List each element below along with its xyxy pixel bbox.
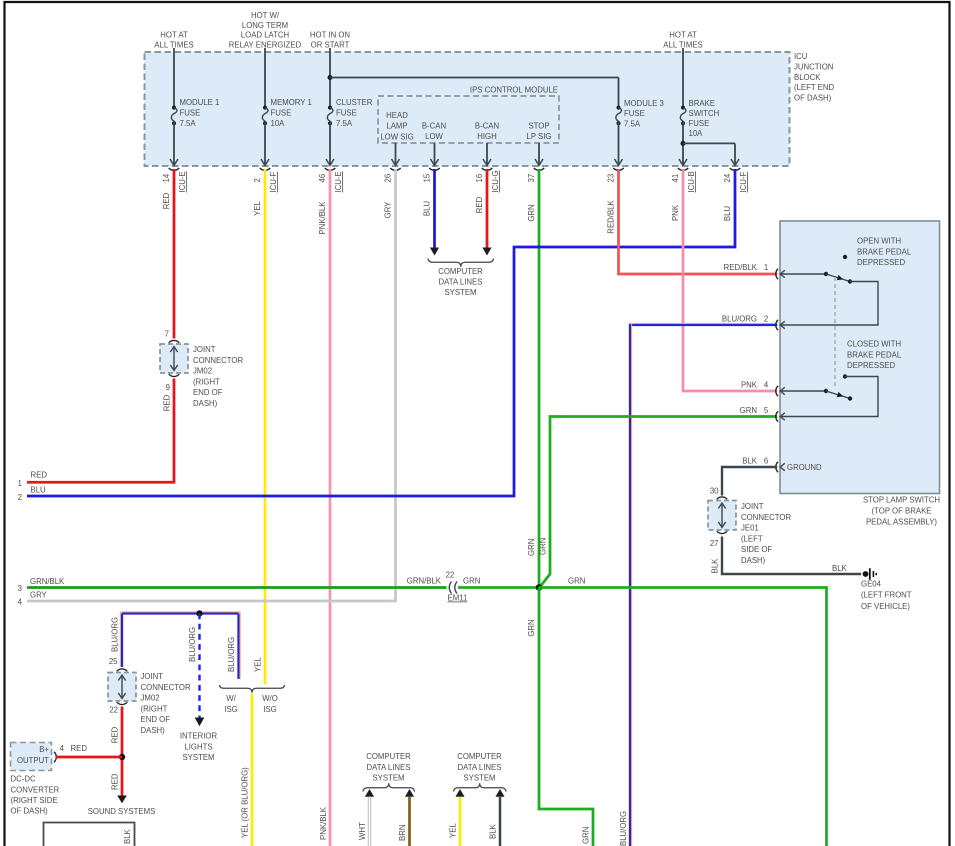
- wire BLU pin15 to computer data lines: [433, 169, 436, 248]
- svg-text:GRN: GRN: [568, 577, 585, 586]
- svg-text:CLUSTER: CLUSTER: [336, 98, 373, 107]
- svg-text:GRN: GRN: [527, 204, 536, 221]
- svg-text:BLU: BLU: [31, 485, 47, 494]
- svg-text:GRN/BLK: GRN/BLK: [407, 577, 442, 586]
- svg-text:DASH): DASH): [193, 399, 218, 408]
- feed wire to BRAKE SWITCH fuse: [682, 48, 684, 108]
- svg-text:37: 37: [527, 174, 536, 183]
- inline connector EM11: [449, 582, 451, 594]
- svg-text:INTERIOR: INTERIOR: [180, 732, 218, 741]
- svg-text:7.5A: 7.5A: [180, 119, 197, 128]
- svg-text:OUTPUT: OUTPUT: [17, 756, 49, 765]
- svg-text:LAMP: LAMP: [386, 122, 407, 131]
- wire IPS HEAD LAMP LOW SIG to pin 26: [395, 143, 397, 165]
- svg-text:LOW SIG: LOW SIG: [380, 132, 413, 141]
- pin 37 connector collar: [534, 168, 544, 170]
- svg-text:30: 30: [710, 487, 719, 496]
- junction node BLU/ORG: [196, 610, 202, 616]
- svg-text:YEL: YEL: [449, 823, 458, 838]
- wire GRY pin26 to row 4: [27, 169, 396, 601]
- svg-text:PNK: PNK: [741, 381, 758, 390]
- svg-text:SIDE OF: SIDE OF: [741, 545, 772, 554]
- svg-text:(LEFT FRONT: (LEFT FRONT: [861, 591, 912, 600]
- svg-text:MEMORY 1: MEMORY 1: [271, 98, 312, 107]
- svg-text:ICU-E: ICU-E: [334, 171, 343, 192]
- svg-text:B+: B+: [39, 745, 49, 754]
- svg-text:ICU-F: ICU-F: [269, 171, 278, 192]
- switch pin 1 bracket: [776, 269, 778, 279]
- svg-text:2: 2: [253, 178, 262, 182]
- svg-text:RED: RED: [162, 192, 171, 209]
- svg-text:5: 5: [764, 406, 769, 415]
- svg-text:RED: RED: [163, 394, 172, 411]
- svg-text:SYSTEM: SYSTEM: [463, 774, 495, 783]
- switch lower closed contact dot: [843, 374, 847, 378]
- wire RED DC-DC to junction: [56, 756, 122, 759]
- svg-text:BRAKE: BRAKE: [689, 99, 715, 108]
- svg-text:ISG: ISG: [224, 705, 237, 714]
- svg-text:HOT AT: HOT AT: [160, 31, 188, 40]
- svg-text:BLU/ORG: BLU/ORG: [188, 627, 197, 662]
- svg-text:FUSE: FUSE: [336, 109, 357, 118]
- svg-text:15: 15: [423, 173, 432, 182]
- svg-text:IPS CONTROL MODULE: IPS CONTROL MODULE: [470, 86, 558, 95]
- arrow sound systems: [117, 796, 127, 804]
- svg-text:CONVERTER: CONVERTER: [11, 785, 60, 794]
- svg-text:LOW: LOW: [425, 132, 443, 141]
- svg-text:ALL TIMES: ALL TIMES: [663, 40, 702, 49]
- svg-text:OF DASH): OF DASH): [794, 94, 832, 103]
- svg-text:PNK/BLK: PNK/BLK: [318, 201, 327, 235]
- svg-text:10A: 10A: [271, 119, 286, 128]
- svg-text:W/O: W/O: [262, 694, 278, 703]
- svg-text:MODULE 3: MODULE 3: [624, 99, 664, 108]
- row 3 wire GRN/BLK from left to EM11: [27, 586, 447, 589]
- svg-text:26: 26: [384, 174, 393, 183]
- arrow WHT: [365, 789, 374, 797]
- svg-text:PNK/BLK: PNK/BLK: [319, 806, 328, 840]
- switch pin 4 bracket: [776, 386, 778, 396]
- svg-text:22: 22: [446, 571, 455, 580]
- pin 26 connector collar: [390, 168, 400, 170]
- pin 15 connector collar: [429, 168, 439, 170]
- fuse CLUSTER 7.5A: [328, 106, 332, 110]
- switch pin 2 bracket: [776, 320, 778, 330]
- svg-text:ICU-F: ICU-F: [739, 171, 748, 192]
- svg-text:DASH): DASH): [141, 726, 166, 735]
- svg-text:GRN: GRN: [582, 827, 591, 844]
- svg-text:10A: 10A: [689, 129, 704, 138]
- svg-text:OR START: OR START: [311, 40, 350, 49]
- svg-text:YEL: YEL: [253, 657, 262, 672]
- pin 24 connector collar: [730, 168, 740, 170]
- svg-text:YEL (OR BLU/ORG): YEL (OR BLU/ORG): [240, 767, 249, 838]
- pin 14 connector collar: [169, 168, 179, 170]
- svg-text:RELAY ENERGIZED: RELAY ENERGIZED: [229, 40, 302, 49]
- junction node RED: [119, 754, 125, 760]
- switch upper blade: [826, 274, 850, 282]
- pin 46 connector collar: [325, 168, 335, 170]
- svg-text:SYSTEM: SYSTEM: [444, 288, 476, 297]
- svg-text:HOT W/: HOT W/: [251, 11, 280, 20]
- wire WHT: [368, 797, 371, 846]
- svg-text:LIGHTS: LIGHTS: [184, 742, 212, 751]
- svg-text:JOINT: JOINT: [193, 345, 216, 354]
- switch pin 6 bracket: [776, 462, 778, 472]
- switch lower section wire pin4: [780, 390, 826, 392]
- wire IPS B-CAN LOW to pin 15: [434, 143, 436, 165]
- svg-text:BLK: BLK: [489, 823, 498, 839]
- svg-text:2: 2: [764, 315, 768, 324]
- svg-text:COMPUTER: COMPUTER: [438, 267, 483, 276]
- svg-text:CONNECTOR: CONNECTOR: [141, 683, 191, 692]
- fuse MEMORY 1 10A: [263, 106, 267, 110]
- svg-text:RED: RED: [71, 744, 88, 753]
- svg-text:SYSTEM: SYSTEM: [372, 774, 404, 783]
- svg-text:HIGH: HIGH: [477, 132, 497, 141]
- junction node brake fuse branch: [681, 141, 686, 146]
- svg-text:25: 25: [109, 657, 118, 666]
- svg-text:OF VEHICLE): OF VEHICLE): [861, 602, 910, 611]
- svg-text:PNK: PNK: [671, 204, 680, 221]
- svg-text:ALL TIMES: ALL TIMES: [154, 40, 193, 49]
- svg-text:(LEFT: (LEFT: [741, 534, 763, 543]
- svg-text:GRY: GRY: [383, 201, 392, 219]
- svg-text:22: 22: [109, 706, 118, 715]
- svg-text:RED/BLK: RED/BLK: [606, 200, 615, 234]
- wire PNK pin41 to switch pin 4: [683, 169, 777, 391]
- arrow BRN: [405, 789, 414, 797]
- svg-text:W/: W/: [226, 694, 236, 703]
- switch pin 5 bracket: [776, 411, 778, 421]
- svg-text:DC-DC: DC-DC: [11, 775, 36, 784]
- wire MODULE 1 fuse to pin 14: [173, 123, 175, 165]
- svg-text:4: 4: [60, 744, 65, 753]
- svg-text:GRN: GRN: [538, 538, 547, 555]
- svg-text:GRN: GRN: [463, 577, 480, 586]
- svg-text:DASH): DASH): [741, 556, 766, 565]
- wire BLU/ORG to JM02 lower: [121, 614, 123, 668]
- joint connector JE01: [717, 497, 727, 499]
- feed wire to CLUSTER fuse: [329, 48, 331, 108]
- pin 23 connector collar: [613, 168, 623, 170]
- svg-text:BLK: BLK: [742, 457, 758, 466]
- svg-text:DATA LINES: DATA LINES: [439, 277, 483, 286]
- wire GRN junction to right and down: [539, 588, 827, 846]
- svg-text:B-CAN: B-CAN: [475, 122, 499, 131]
- svg-text:2: 2: [18, 493, 22, 502]
- fuse MODULE 3 7.5A: [617, 106, 621, 110]
- svg-text:DATA LINES: DATA LINES: [458, 763, 502, 772]
- junction node GRN: [536, 584, 543, 591]
- DC-DC output bracket: [54, 752, 56, 762]
- svg-text:(RIGHT SIDE: (RIGHT SIDE: [11, 796, 58, 805]
- svg-text:ISG: ISG: [263, 705, 276, 714]
- wire RED/BLK pin23 to switch pin 1: [619, 169, 778, 274]
- wire YEL bottom: [459, 797, 462, 846]
- wire CLUSTER fuse to pin 46: [329, 123, 331, 165]
- svg-text:GRN: GRN: [740, 406, 757, 415]
- wire GRN junction down with jog: [539, 588, 593, 846]
- arrow BLU computer data lines: [430, 248, 439, 256]
- svg-text:BLU/ORG: BLU/ORG: [227, 637, 236, 672]
- svg-text:HOT AT: HOT AT: [669, 31, 697, 40]
- svg-text:RED: RED: [110, 726, 119, 743]
- svg-text:ICU-G: ICU-G: [491, 170, 500, 192]
- wire BLU/ORG switch pin 2 down: [630, 325, 777, 846]
- switch upper section wire pin1: [780, 273, 826, 275]
- svg-text:7: 7: [165, 330, 169, 339]
- brace computer data lines bottom right: [454, 783, 507, 791]
- svg-text:(RIGHT: (RIGHT: [141, 704, 168, 713]
- svg-text:STOP LAMP SWITCH: STOP LAMP SWITCH: [863, 496, 940, 505]
- svg-text:BLK: BLK: [832, 564, 848, 573]
- svg-text:DEPRESSED: DEPRESSED: [857, 258, 905, 267]
- svg-text:PEDAL ASSEMBLY): PEDAL ASSEMBLY): [866, 518, 937, 527]
- svg-text:41: 41: [671, 174, 680, 183]
- svg-text:RED/BLK: RED/BLK: [724, 263, 758, 272]
- svg-text:EM11: EM11: [448, 594, 468, 603]
- wire GRN switch pin 5 to junction: [540, 417, 778, 588]
- svg-text:BLK: BLK: [123, 828, 132, 844]
- svg-text:27: 27: [710, 539, 719, 548]
- feed wire to MEMORY 1 fuse: [264, 48, 266, 108]
- svg-text:FUSE: FUSE: [624, 109, 645, 118]
- svg-text:DEPRESSED: DEPRESSED: [847, 361, 895, 370]
- svg-text:(LEFT END: (LEFT END: [794, 83, 835, 92]
- feed wire to MODULE 1 fuse: [173, 48, 175, 108]
- svg-text:RED: RED: [31, 471, 48, 480]
- wire PNK/BLK pin46 down: [329, 169, 332, 846]
- pin 41 connector collar: [678, 168, 688, 170]
- svg-text:1: 1: [18, 479, 22, 488]
- svg-text:BLU: BLU: [723, 206, 732, 222]
- wire RED pin16 to computer data lines: [486, 169, 489, 248]
- arrow interior lights system: [195, 718, 205, 727]
- wire IPS STOP LP SIG to pin 37: [538, 143, 540, 165]
- svg-text:14: 14: [162, 173, 171, 182]
- wire BLU/ORG dashed to interior lights: [198, 614, 200, 719]
- fuse MODULE 1 7.5A: [172, 106, 176, 110]
- svg-text:GRN/BLK: GRN/BLK: [30, 577, 65, 586]
- svg-text:7.5A: 7.5A: [624, 119, 641, 128]
- svg-text:FUSE: FUSE: [689, 119, 710, 128]
- svg-text:COMPUTER: COMPUTER: [366, 752, 411, 761]
- svg-text:LONG TERM: LONG TERM: [242, 21, 288, 30]
- wire MODULE 3 fuse to pin 23: [618, 123, 620, 165]
- svg-text:JE01: JE01: [741, 524, 759, 533]
- wire BLK bottom: [499, 797, 502, 846]
- svg-text:BLU/ORG: BLU/ORG: [619, 811, 628, 846]
- svg-text:GRN: GRN: [527, 619, 536, 636]
- svg-text:3: 3: [18, 584, 22, 593]
- svg-text:JM02: JM02: [141, 694, 160, 703]
- svg-text:7.5A: 7.5A: [336, 119, 353, 128]
- joint connector JM02 upper: [169, 340, 179, 342]
- svg-text:FUSE: FUSE: [180, 109, 201, 118]
- joint connector JM02 lower: [117, 669, 127, 671]
- switch lower blade: [826, 391, 850, 399]
- svg-text:HEAD: HEAD: [386, 111, 408, 120]
- svg-text:CLOSED WITH: CLOSED WITH: [847, 340, 901, 349]
- wire IPS B-CAN HIGH to pin 16: [486, 143, 488, 165]
- svg-text:OF DASH): OF DASH): [11, 807, 49, 816]
- arrow YEL: [455, 789, 464, 797]
- svg-text:16: 16: [475, 174, 484, 183]
- svg-text:RED: RED: [475, 196, 484, 213]
- svg-text:GRY: GRY: [30, 591, 48, 600]
- svg-text:MODULE 1: MODULE 1: [180, 98, 220, 107]
- svg-text:FUSE: FUSE: [271, 109, 292, 118]
- ground GE04: [863, 571, 869, 577]
- DC-DC converter B+ OUTPUT box: [11, 743, 52, 771]
- wire BLU/ORG to W/ISG brace: [237, 614, 239, 680]
- svg-text:LP SIG: LP SIG: [527, 132, 552, 141]
- switch lower U-wire to pin 5: [780, 377, 878, 417]
- svg-text:ICU: ICU: [794, 52, 808, 61]
- IPS control module box: [378, 96, 559, 143]
- svg-text:END OF: END OF: [141, 715, 171, 724]
- wire BRAKE SWITCH fuse to pin 41: [682, 123, 684, 165]
- svg-text:BRAKE PEDAL: BRAKE PEDAL: [857, 247, 912, 256]
- svg-text:SOUND SYSTEMS: SOUND SYSTEMS: [88, 807, 156, 816]
- svg-text:9: 9: [166, 383, 170, 392]
- svg-text:JM02: JM02: [193, 367, 212, 376]
- svg-text:BLU/ORG: BLU/ORG: [110, 617, 119, 652]
- svg-text:46: 46: [318, 174, 327, 183]
- wire RED JM02 to row 1: [27, 379, 174, 483]
- svg-text:GROUND: GROUND: [787, 463, 822, 472]
- pin 16 connector collar: [482, 168, 492, 170]
- wire BLU/ORG horizontal: [122, 612, 239, 614]
- wire BRN: [408, 797, 411, 846]
- wire BLK JE01 to ground GE04: [722, 537, 861, 575]
- svg-text:JOINT: JOINT: [741, 502, 764, 511]
- stop lamp switch box: [780, 221, 940, 494]
- svg-text:BRAKE PEDAL: BRAKE PEDAL: [847, 350, 902, 359]
- svg-text:4: 4: [764, 381, 769, 390]
- svg-text:SYSTEM: SYSTEM: [182, 753, 214, 762]
- brace computer data lines top: [428, 259, 494, 267]
- bottom left component box: [44, 823, 135, 846]
- svg-text:RED: RED: [110, 773, 119, 790]
- svg-text:SWITCH: SWITCH: [689, 109, 720, 118]
- svg-text:1: 1: [764, 263, 768, 272]
- svg-text:END OF: END OF: [193, 388, 223, 397]
- svg-text:CONNECTOR: CONNECTOR: [741, 513, 791, 522]
- wire branch to MODULE 3 fuse: [330, 77, 619, 79]
- svg-text:YEL: YEL: [253, 200, 262, 215]
- svg-text:LOAD LATCH: LOAD LATCH: [241, 31, 289, 40]
- svg-text:BLU/ORG: BLU/ORG: [722, 315, 757, 324]
- wire BLU pin24 to row 2: [27, 169, 735, 496]
- wire branch to pin 24: [683, 142, 735, 144]
- svg-text:JUNCTION: JUNCTION: [794, 62, 833, 71]
- wire BLK switch pin 6 to JE01: [722, 467, 777, 496]
- ICU junction block box: [145, 52, 790, 166]
- brace computer data lines bottom left: [363, 783, 415, 791]
- wire RED pin14 to JM02: [173, 169, 176, 339]
- wire GRN EM11 to junction: [458, 586, 539, 589]
- svg-text:DATA LINES: DATA LINES: [367, 763, 411, 772]
- wire YEL pin2 down: [264, 169, 267, 685]
- wire MEMORY 1 fuse to pin 2: [264, 123, 266, 165]
- svg-text:23: 23: [607, 174, 616, 183]
- svg-text:BRN: BRN: [398, 825, 407, 841]
- svg-text:WHT: WHT: [358, 822, 367, 840]
- switch mechanical link dashed: [834, 277, 836, 389]
- svg-text:HOT IN ON: HOT IN ON: [310, 31, 350, 40]
- wire RED JM02 lower to sound systems: [121, 707, 124, 797]
- svg-text:BLK: BLK: [711, 558, 720, 574]
- svg-text:BLU: BLU: [422, 201, 431, 217]
- svg-text:COMPUTER: COMPUTER: [457, 752, 502, 761]
- arrow BLK: [495, 789, 504, 797]
- svg-text:(TOP OF BRAKE: (TOP OF BRAKE: [872, 507, 932, 516]
- svg-text:ICU-B: ICU-B: [687, 171, 696, 192]
- svg-text:24: 24: [723, 173, 732, 182]
- svg-text:6: 6: [764, 457, 768, 466]
- arrow RED computer data lines: [482, 248, 491, 256]
- switch upper open contact dot: [843, 255, 847, 259]
- wire GRN pin37 to junction: [538, 169, 541, 588]
- svg-text:STOP: STOP: [528, 122, 549, 131]
- svg-text:OPEN WITH: OPEN WITH: [857, 237, 901, 246]
- wire YEL below brace: [251, 694, 254, 846]
- svg-text:GE04: GE04: [861, 580, 882, 589]
- svg-text:4: 4: [18, 598, 23, 607]
- svg-text:CONNECTOR: CONNECTOR: [193, 356, 243, 365]
- svg-text:(RIGHT: (RIGHT: [193, 377, 220, 386]
- brace W/ISG options: [220, 685, 285, 693]
- pin 2 connector collar: [260, 168, 270, 170]
- svg-text:ICU-E: ICU-E: [178, 171, 187, 192]
- svg-text:GRN: GRN: [527, 539, 536, 556]
- fuse BRAKE SWITCH 10A: [681, 106, 685, 110]
- junction node HOT IN ON branch: [328, 75, 333, 80]
- switch upper U-wire to pin 2: [780, 282, 878, 326]
- svg-text:B-CAN: B-CAN: [422, 122, 446, 131]
- svg-text:JOINT: JOINT: [141, 672, 164, 681]
- svg-text:BLOCK: BLOCK: [794, 73, 821, 82]
